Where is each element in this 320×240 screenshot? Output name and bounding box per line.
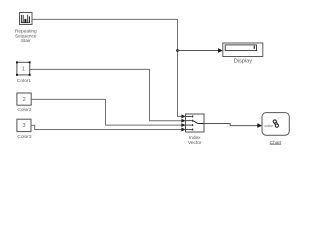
svg-text:Vector: Vector — [188, 140, 202, 146]
svg-text:Color1: Color1 — [17, 78, 31, 84]
svg-text:color: color — [265, 123, 274, 128]
arrowhead into chart — [257, 123, 262, 128]
arrowhead into index vector port 1 — [181, 114, 185, 118]
svg-text:Color2: Color2 — [17, 107, 31, 113]
arrowhead into index vector port 3 — [181, 123, 185, 127]
wire index vector to chart — [204, 124, 259, 126]
svg-text:1: 1 — [22, 66, 25, 72]
block Color3 — [17, 119, 31, 131]
label Index Vector — [188, 135, 202, 146]
svg-text:3: 3 — [23, 123, 26, 129]
wire Color2 to index vector port 3 — [31, 99, 183, 125]
arrowhead into display — [218, 48, 223, 53]
arrowhead into index vector port 2 — [181, 119, 185, 123]
svg-text:Display: Display — [234, 58, 253, 64]
block Color2 — [17, 93, 31, 105]
label Chart — [270, 140, 282, 146]
junction node — [176, 49, 179, 52]
block Chart (Stateflow) — [262, 113, 289, 136]
arrowhead into index vector port 4 — [181, 128, 185, 132]
svg-text:Chart: Chart — [270, 140, 282, 146]
svg-text:Stair: Stair — [21, 38, 31, 44]
block Color1 (selected) — [16, 61, 31, 75]
label Repeating Sequence Stair — [15, 29, 37, 45]
block Display — [223, 43, 263, 57]
wire branch to display — [178, 50, 220, 52]
svg-text:Color3: Color3 — [17, 134, 31, 140]
wire Color1 to index vector port 2 — [30, 69, 183, 120]
wire stair to index vector control — [32, 19, 182, 116]
block Index Vector (multiport switch) — [186, 114, 205, 132]
block Repeating Sequence Stair — [20, 13, 33, 25]
wire Color3 to index vector port 4 — [31, 125, 183, 129]
svg-text:2: 2 — [23, 97, 26, 103]
